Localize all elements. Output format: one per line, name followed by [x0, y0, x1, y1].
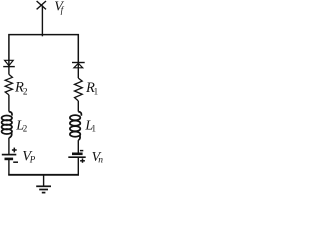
wire: bottom horizontal rail — [8, 174, 79, 176]
label L2 — [15, 118, 27, 133]
label Vp — [22, 148, 36, 164]
battery Vn plus sign — [80, 158, 85, 162]
svg-text:P: P — [29, 154, 36, 164]
svg-text:1: 1 — [92, 123, 97, 133]
label Vn — [92, 150, 104, 165]
wire: battery Vn to bottom rail — [77, 157, 79, 175]
wire: top horizontal rail — [9, 35, 78, 67]
resistor R2 — [5, 74, 12, 95]
wire: inductor L1 to battery Vn — [77, 140, 79, 154]
label R2 — [14, 80, 28, 98]
battery Vn positive plate (long) — [68, 156, 85, 158]
inductor L2 — [2, 112, 12, 138]
wire: inductor L2 to battery Vp — [8, 138, 10, 154]
inductor L1 — [70, 112, 82, 141]
wire: resistor R2 to inductor L2 — [8, 95, 10, 112]
wire: diode D2 to resistor R2 — [8, 67, 10, 75]
resistor R1 — [75, 78, 83, 101]
wire: diode D1 to resistor R1 — [77, 63, 79, 79]
terminal X (input V_f) — [37, 1, 46, 9]
wire: resistor R1 to inductor L1 — [77, 101, 79, 112]
diode D2 (left branch, anode up, pointing down) — [3, 60, 15, 66]
svg-text:2: 2 — [23, 123, 28, 133]
svg-text:f: f — [61, 5, 65, 15]
svg-text:n: n — [98, 156, 103, 166]
battery Vp minus sign — [13, 161, 18, 163]
battery Vp plus sign — [12, 148, 17, 153]
wire: battery Vp to bottom rail — [8, 159, 10, 175]
label L1 — [84, 118, 96, 133]
battery Vp positive plate (long) — [2, 154, 16, 156]
battery Vn minus sign — [80, 150, 83, 152]
battery Vn negative plate (short thick) — [72, 153, 83, 156]
svg-text:1: 1 — [94, 86, 99, 96]
wire: stub from X down to top rail — [41, 5, 43, 36]
svg-text:2: 2 — [23, 88, 28, 98]
battery Vp negative plate (short thick) — [5, 158, 14, 161]
label R1 — [85, 80, 98, 97]
ground — [36, 175, 51, 193]
label V_f — [54, 0, 64, 15]
diode D1 (right branch, cathode up, pointing up) — [72, 63, 85, 68]
